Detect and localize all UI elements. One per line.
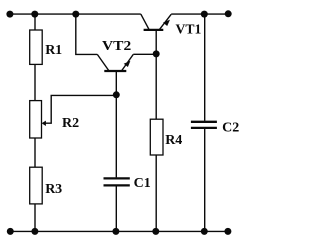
wire R4 to bottom rail (155, 155, 157, 231)
transistor VT2 (97, 39, 133, 95)
node junction bottom rail C2 (201, 228, 208, 235)
capacitor C2 (191, 121, 239, 136)
svg-text:VT2: VT2 (102, 39, 131, 54)
node junction top rail C2 (201, 11, 208, 18)
wire R2 wiper to node A (43, 95, 116, 123)
potentiometer R2 (30, 101, 79, 138)
wire R2 to R3 (34, 138, 36, 167)
node junction bottom rail R3 (31, 228, 38, 235)
svg-text:R2: R2 (62, 116, 79, 131)
wire node A down to C1 (115, 95, 117, 178)
svg-text:R4: R4 (165, 133, 182, 148)
wire bottom rail (10, 230, 228, 232)
wire top rail to R1 (34, 14, 36, 30)
wire top rail right segment (171, 13, 228, 15)
transistor VT1 (141, 14, 202, 37)
terminal bottom left (7, 228, 14, 235)
wire C1 to bottom rail (115, 187, 117, 232)
node junction bottom rail C1 (112, 228, 119, 235)
wire top rail down to C2 (204, 14, 206, 121)
svg-text:C1: C1 (134, 176, 151, 191)
wire R1 to R2 (34, 64, 36, 100)
svg-text:VT1: VT1 (176, 22, 202, 37)
node junction top rail above R1 (31, 11, 38, 18)
svg-text:C2: C2 (222, 121, 239, 136)
capacitor C1 (104, 176, 151, 191)
terminal top right (225, 10, 232, 17)
terminal top left (6, 11, 13, 18)
wire VT2 collector to top rail (76, 14, 98, 54)
wire top rail left segment (10, 13, 141, 15)
svg-text:R1: R1 (45, 43, 62, 58)
node junction top rail VT2 collector (72, 11, 79, 18)
resistor R3 (30, 167, 62, 204)
node junction VT1 base / VT2 emitter (153, 50, 160, 57)
resistor R4 (150, 119, 182, 155)
resistor R1 (30, 30, 62, 64)
node junction bottom rail R4 (152, 228, 159, 235)
wire C2 to bottom rail (204, 129, 206, 232)
wire R3 to bottom rail (34, 204, 36, 232)
wire VT2 emitter to VT1 base node (133, 53, 156, 55)
terminal bottom right (224, 228, 231, 235)
wire VT1 base down to R4 (155, 31, 157, 119)
node A junction VT2 base / wiper / C1 (113, 91, 120, 98)
svg-text:R3: R3 (45, 182, 62, 197)
